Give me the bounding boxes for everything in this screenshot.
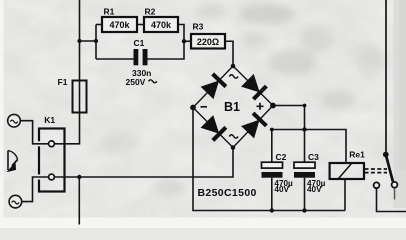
relay coil Re1 [330,150,366,179]
svg-text:K1: K1 [44,115,55,125]
svg-text:C2: C2 [276,152,287,162]
diode top-right [241,74,266,99]
svg-text:B250C1500: B250C1500 [198,187,257,199]
wire: R3 right to bridge AC top [225,41,233,66]
terminal block K1 [37,115,64,192]
svg-text:R3: R3 [193,22,204,32]
switch lever [386,155,393,182]
node plus rail C2 [270,128,274,132]
resistor R1 [102,7,137,32]
mains plug arrow symbol [8,151,18,172]
node bridge AC top [231,64,236,69]
svg-text:250V: 250V [126,77,146,87]
svg-text:Re1: Re1 [349,150,365,160]
svg-text:F1: F1 [58,77,68,87]
diode bottom-left [201,115,226,140]
wire: R1 to R2 [137,24,144,26]
wire: switch common from top [385,0,387,155]
wire: C2 top lead [271,130,273,163]
wire: K1 terminal 2 to bridge AC bottom [54,148,233,178]
node C3 bottom [302,208,306,212]
AC source bottom [9,195,22,208]
white strip left [0,0,4,228]
wire: AC bottom to K1 terminal 2 [22,177,49,202]
wire: to R1 left [96,24,102,26]
wire: bridge minus down and along bottom rail [193,108,345,211]
switch contact right [392,182,398,188]
wire: C3 bottom lead [304,178,306,211]
wire: C2 bottom lead [271,178,273,211]
node R2/C1/R3 junction [182,39,186,43]
svg-text:40V: 40V [307,185,322,194]
diode top-left [201,74,226,99]
svg-text:C1: C1 [134,38,145,48]
wire: C3 top lead [304,130,306,163]
K1 terminal 1 [49,141,55,147]
capacitor C3 [294,152,326,194]
node neutral junction [77,175,81,179]
capacitor C2 [262,152,294,194]
svg-text:40V: 40V [274,185,289,194]
page edge band right [394,0,406,208]
white strip bottom [0,218,406,229]
node at branch y41 [94,39,98,43]
switch contact left [374,182,380,188]
node at main vertical y41 [77,39,81,43]
wire: R2 right down to C1 right [148,25,185,60]
wire: jumper at y41 to R1/C1 branch [80,40,97,42]
node plus corner [303,104,307,108]
svg-text:R2: R2 [145,7,156,17]
svg-text:C3: C3 [308,152,319,162]
wire: right contact stub [394,188,396,200]
wire: bridge plus to plus rail [273,106,305,130]
fuse F1 [58,77,87,113]
wire: plus rail [272,130,346,164]
node bridge AC bottom [231,145,236,150]
svg-text:R1: R1 [104,7,115,17]
bridge ~ top [229,75,238,78]
node plus rail C3 [302,127,306,131]
wire: mains live vertical through fuse to K1 top terminal [54,0,79,144]
bridge rectifier B1 outline [193,66,273,148]
svg-text:470k: 470k [151,20,172,30]
wire: AC top to K1 terminal 1 [20,121,48,144]
svg-text:B1: B1 [224,100,240,114]
svg-text:220Ω: 220Ω [197,37,219,47]
wire: coil bottom to minus rail [344,179,346,211]
bridge plus sign [257,103,264,110]
wire: to C1 left [96,58,134,60]
bridge ~ bottom [229,135,238,138]
wire: junction to R3 [184,40,191,42]
wire: left contact to bottom right [377,188,406,211]
svg-text:470k: 470k [109,20,130,30]
relay actuator dashed link [365,168,388,170]
AC source top [8,114,21,127]
bridge minus sign [201,106,208,108]
K1 terminal 2 [49,174,55,180]
wire: neutral down off page [78,177,80,225]
resistor R3 [191,22,225,49]
node bridge minus [190,105,196,111]
diode bottom-right [241,113,266,138]
resistor R2 [144,7,178,32]
wire: branch vertical R1 row to C1 row [95,25,97,60]
node C2 bottom [270,208,274,212]
node switch pivot [383,152,389,158]
capacitor C1 [126,38,157,87]
node bridge plus [270,103,276,109]
